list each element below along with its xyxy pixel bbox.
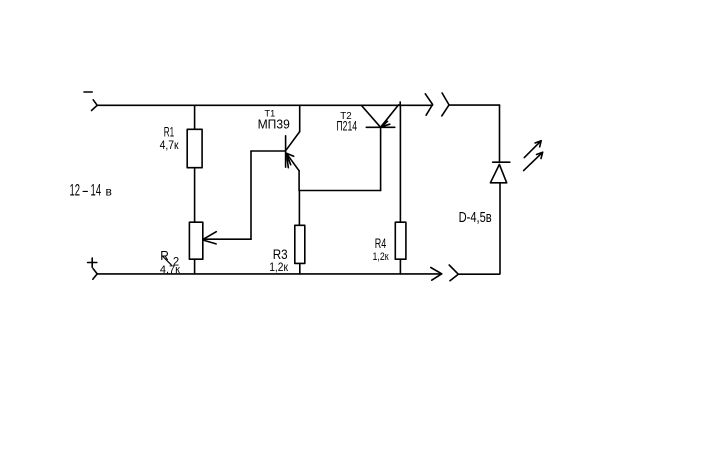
resistor R1 (187, 129, 202, 167)
break mark bottom (431, 265, 459, 281)
svg-text:МП39: МП39 (258, 116, 290, 131)
wire T1 base (251, 150, 286, 152)
wire right vertical top (499, 105, 501, 162)
wire R1 to R2 (194, 168, 196, 223)
resistor R3 (295, 225, 305, 263)
R2 label overstroke (163, 256, 172, 265)
svg-text:П214: П214 (336, 119, 357, 134)
wire R4 top (399, 105, 401, 222)
svg-text:R: R (160, 248, 169, 263)
LED light arrow 1 (524, 141, 541, 158)
wire R3 top (298, 191, 300, 226)
svg-text:12 – 14: 12 – 14 (70, 180, 102, 199)
wire wiper vertical (250, 151, 252, 239)
transistor T1 (286, 132, 300, 171)
wire R1 top (194, 105, 196, 129)
svg-text:1,2к: 1,2к (269, 262, 289, 274)
break mark top (425, 93, 449, 116)
svg-text:D-4,5в: D-4,5в (459, 210, 492, 226)
svg-text:в: в (106, 185, 112, 199)
input connector bottom (93, 269, 97, 280)
wire R4 bottom (399, 259, 401, 274)
wire T2 base vertical (380, 127, 382, 190)
plus terminal (88, 258, 97, 267)
svg-text:1,2к: 1,2к (373, 251, 389, 263)
wire R3 bottom (299, 263, 301, 274)
LED D1 cathode bar (493, 161, 510, 163)
R2 wiper arrow (203, 232, 217, 244)
wire top rail left (97, 104, 432, 106)
potentiometer R2 (189, 222, 202, 259)
wire T1 collector (299, 105, 301, 131)
transistor T2 (361, 102, 400, 127)
svg-text:R4: R4 (375, 235, 387, 251)
wire bottom rail left (97, 273, 442, 275)
resistor R4 (395, 222, 406, 259)
svg-text:R1: R1 (164, 124, 175, 140)
wire bottom rail right (458, 273, 499, 275)
wire LED bottom (499, 183, 501, 274)
LED light arrow 2 (524, 152, 543, 170)
wire top rail right (449, 104, 500, 106)
wire emitter to T2 base (299, 190, 381, 192)
svg-text:R3: R3 (273, 246, 288, 262)
input connector top (92, 100, 98, 111)
LED D1 triangle (490, 164, 506, 182)
svg-text:4,7к: 4,7к (160, 264, 180, 276)
wire R2 bottom (194, 259, 196, 274)
minus terminal (84, 91, 92, 93)
wire T1 emitter down (298, 171, 300, 191)
wire wiper horizontal (203, 238, 251, 240)
svg-text:4,7к: 4,7к (160, 140, 180, 152)
